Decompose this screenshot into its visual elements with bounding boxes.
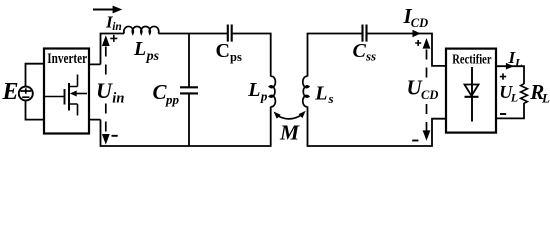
svg-text:ps: ps [146,49,160,64]
svg-text:s: s [328,91,334,106]
svg-text:pp: pp [165,92,180,107]
svg-text:C: C [216,40,230,62]
svg-text:U: U [96,78,113,103]
svg-text:Inverter: Inverter [47,51,87,67]
svg-text:L: L [314,83,327,105]
svg-text:M: M [279,120,300,144]
svg-text:in: in [112,21,122,33]
svg-text:ps: ps [230,50,242,64]
svg-text:C: C [353,40,367,62]
svg-text:L: L [514,55,522,69]
svg-text:CD: CD [411,16,428,30]
svg-text:p: p [260,89,268,104]
svg-text:L: L [133,38,146,60]
svg-text:Rectifier: Rectifier [452,52,491,67]
svg-text:in: in [112,90,124,106]
svg-text:L: L [510,91,518,105]
svg-text:CD: CD [421,88,438,102]
svg-text:L: L [247,79,260,101]
svg-text:ss: ss [365,48,376,63]
svg-text:E: E [2,79,19,105]
svg-text:L: L [541,91,550,106]
